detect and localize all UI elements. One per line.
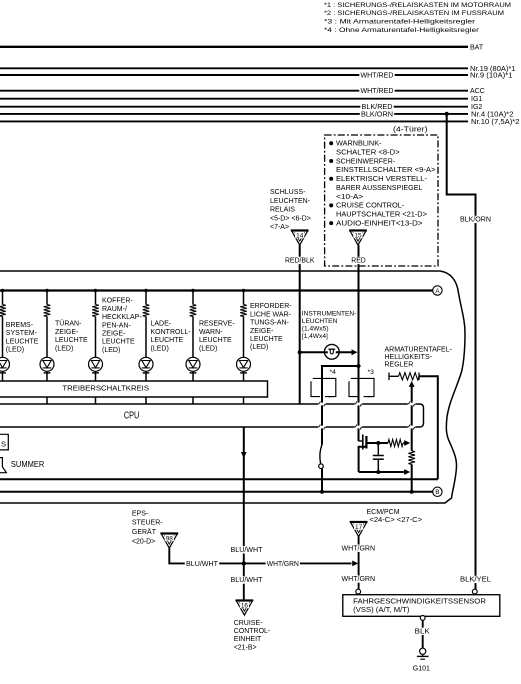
dimmer label ARMATURENTAFEL-HELLIGKEITS-REGLER [385, 346, 453, 368]
svg-text:BLK/ORN: BLK/ORN [361, 111, 393, 118]
svg-text:WHT/GRN: WHT/GRN [342, 545, 376, 552]
svg-text:TUNGS-AN-: TUNGS-AN- [250, 320, 290, 327]
wire branch to *4 [322, 366, 359, 445]
internal bus (dimmer return) [0, 478, 438, 480]
label EPS-STEUERGERAET [132, 510, 163, 545]
svg-text:(LED): (LED) [199, 345, 217, 352]
ticks driver circuit to CPU [47, 397, 244, 404]
wire BLK/ORN vertical to BLK/YEL [447, 114, 492, 591]
buzzer SUMMER [0, 458, 45, 473]
lamp INSTRUMENTENLEUCHTEN [300, 344, 358, 359]
wire RED/BLK from connector 14 [284, 245, 316, 271]
driver circuit box TREIBERSCHALTKREIS [0, 381, 268, 397]
wire BLK/ORN fuse Nr.4 (10A) [0, 111, 514, 119]
svg-text:LEUCHTE: LEUCHTE [6, 338, 39, 345]
LED branch BREMS-SYSTEM-LEUCHTE [0, 289, 39, 381]
wire BLK to ground [414, 620, 431, 648]
svg-text:HECKKLAP-: HECKKLAP- [102, 314, 142, 321]
svg-text:G101: G101 [413, 666, 430, 673]
breakmarks CPU box crossings [318, 401, 416, 429]
junction BLU/WHT [242, 561, 246, 565]
svg-text:IG2: IG2 [471, 104, 482, 111]
svg-text:16: 16 [241, 603, 249, 610]
LED branch RESERVEWARN-LEUCHTE [186, 289, 235, 381]
svg-text:ERFORDER-: ERFORDER- [250, 303, 292, 310]
wire IG1 [0, 96, 482, 103]
svg-text:RAUM-/: RAUM-/ [102, 306, 127, 313]
node A [433, 286, 442, 295]
svg-text:(LED): (LED) [6, 347, 24, 354]
resistor R1 (series) [366, 439, 410, 446]
junction split to *4 branch [356, 364, 360, 368]
LED branch TUERANZEIGE-LEUCHTE [40, 289, 88, 381]
svg-text:<7-A>: <7-A> [270, 224, 289, 231]
svg-text:EINHEIT: EINHEIT [234, 636, 262, 643]
svg-text:Nr.9 (10A)*1: Nr.9 (10A)*1 [470, 73, 513, 80]
svg-text:STEUER-: STEUER- [132, 520, 163, 527]
wire BLU/WHT vertical cluster to cruise [229, 503, 263, 601]
svg-text:HAUPTSCHALTER <21-D>: HAUPTSCHALTER <21-D> [336, 212, 427, 219]
svg-text:PEN-AN-: PEN-AN- [102, 322, 131, 329]
LED branch WARTUNGSANZEIGE-LEUCHTE [237, 289, 293, 381]
svg-text:CPU: CPU [124, 410, 140, 421]
svg-text:KOFFER-: KOFFER- [102, 298, 133, 305]
CPU box [0, 404, 424, 427]
svg-text:LEUCHTE: LEUCHTE [199, 337, 232, 344]
svg-text:REGLER: REGLER [385, 362, 414, 369]
svg-text:LEUCHTEN-: LEUCHTEN- [270, 198, 311, 205]
svg-text:<21-B>: <21-B> [234, 644, 257, 651]
junction switch to B bus [320, 490, 324, 494]
svg-text:14: 14 [296, 233, 304, 240]
svg-text:<24-C> <27-C>: <24-C> <27-C> [369, 517, 422, 524]
instrument cluster box outline [0, 271, 465, 503]
svg-text:IG1: IG1 [471, 96, 482, 103]
svg-text:LADE-: LADE- [151, 321, 172, 328]
switch option box (dash-dot) [325, 135, 438, 266]
svg-text:BLK/YEL: BLK/YEL [460, 577, 491, 584]
svg-text:BLK/RED: BLK/RED [362, 104, 393, 111]
svg-text:BLU/WHT: BLU/WHT [186, 561, 219, 568]
svg-text:BLU/WHT: BLU/WHT [231, 547, 264, 554]
svg-text:BLK/ORN: BLK/ORN [460, 217, 491, 224]
label CRUISE-CONTROL-EINHEIT [234, 620, 271, 652]
LED branch KOFFERRAUM-ANZEIGE-LEUCHTE [89, 289, 143, 381]
svg-text:17: 17 [355, 524, 363, 531]
svg-text:WARNBLINK-: WARNBLINK- [336, 141, 382, 148]
svg-text:Nr.4 (10A)*2: Nr.4 (10A)*2 [471, 111, 514, 118]
svg-text:WHT/GRN: WHT/GRN [267, 561, 299, 568]
wire BLK/RED IG2 [0, 103, 482, 111]
svg-text:LEUCHTE: LEUCHTE [250, 336, 283, 343]
wire RED feed (x=358.5) down to dimmer circuit [358, 271, 360, 441]
svg-text:BREMS-: BREMS- [6, 322, 34, 329]
svg-text:CRUISE CONTROL-: CRUISE CONTROL- [336, 203, 405, 210]
svg-text:<10-A>: <10-A> [336, 194, 363, 201]
svg-text:(1,4Wx5): (1,4Wx5) [302, 326, 329, 333]
label ECM/PCM [367, 509, 423, 524]
svg-text:(LED): (LED) [102, 347, 120, 354]
resistor R2 (pull-down) [408, 443, 415, 492]
svg-text:*4 : Ohne Armaturentafel-Helli: *4 : Ohne Armaturentafel-Helligkeitsregl… [324, 27, 480, 34]
svg-text:SCHEINWERFER-: SCHEINWERFER- [336, 158, 396, 165]
svg-text:ARMATURENTAFEL-: ARMATURENTAFEL- [385, 346, 453, 353]
svg-text:HELLIGKEITS-: HELLIGKEITS- [385, 354, 433, 361]
svg-text:*4: *4 [330, 369, 337, 376]
svg-text:(4-Türer): (4-Türer) [393, 127, 428, 134]
wire fuse Nr.19 (80A) [0, 66, 516, 73]
svg-text:WARN-: WARN- [199, 329, 223, 336]
junction Nr.4 / BLK-ORN tap [445, 112, 449, 116]
svg-text:SCHLUSS-: SCHLUSS- [270, 189, 306, 196]
connector triangle 98 [161, 534, 179, 549]
connector triangle 15 [349, 231, 367, 246]
svg-text:RELAIS: RELAIS [270, 207, 295, 214]
svg-text:TREIBERSCHALTKREIS: TREIBERSCHALTKREIS [62, 383, 149, 392]
svg-text:WHT/GRN: WHT/GRN [342, 576, 376, 583]
connector triangle 14 [291, 231, 309, 246]
svg-text:BARER AUSSENSPIEGEL: BARER AUSSENSPIEGEL [336, 185, 423, 192]
svg-text:ZEIGE-: ZEIGE- [250, 328, 274, 335]
terminal VSS left [356, 589, 361, 594]
vehicle speed sensor box [343, 595, 500, 617]
svg-text:GERÄT: GERÄT [132, 528, 157, 536]
svg-text:ECM/PCM: ECM/PCM [367, 509, 400, 516]
svg-text:BLU/WHT: BLU/WHT [231, 577, 264, 584]
svg-text:*1 : SICHERUNGS-/RELAISKASTEN: *1 : SICHERUNGS-/RELAISKASTEN IM MOTORRA… [324, 2, 511, 9]
relay label SCHLUSS-LEUCHTEN-RELAIS [270, 189, 311, 231]
wire CPU output to EPS/cruise (x=243.8) [241, 427, 247, 503]
terminal VSS right [472, 589, 477, 594]
connector triangle 17 [350, 522, 368, 537]
svg-text:98: 98 [166, 536, 174, 543]
junction R2 to B bus [410, 490, 414, 494]
svg-text:B: B [435, 489, 439, 496]
wire WHT/GRN to ECM [244, 560, 358, 568]
option box *3 [349, 369, 374, 397]
svg-text:RED: RED [351, 258, 366, 265]
potentiometer wiper arrow [409, 381, 415, 443]
svg-text:RED/BLK: RED/BLK [285, 258, 315, 265]
svg-text:ZEIGE-: ZEIGE- [102, 331, 126, 338]
ground G101 [413, 648, 430, 672]
svg-text:EPS-: EPS- [132, 510, 149, 517]
wire BLU/WHT from EPS [169, 548, 244, 568]
svg-text:RESERVE-: RESERVE- [199, 321, 235, 328]
wire WHT/GRN ECM to VSS [340, 537, 376, 591]
svg-text:*3: *3 [368, 369, 375, 376]
wire WHT/RED ACC [0, 87, 485, 95]
option box *4 [311, 369, 336, 397]
svg-text:SUMMER: SUMMER [11, 460, 45, 469]
svg-text:LEUCHTE: LEUCHTE [151, 337, 184, 344]
terminal VSS bottom [420, 616, 425, 621]
junction R1/wiper [376, 441, 380, 445]
svg-text:[1,4Wx4]: [1,4Wx4] [302, 333, 328, 340]
svg-text:LEUCHTEN: LEUCHTEN [302, 318, 338, 325]
connector triangle 16 [236, 601, 254, 616]
svg-text:LEUCHTE: LEUCHTE [102, 339, 135, 346]
svg-text:<20-D>: <20-D> [132, 538, 155, 545]
footnote legend *1-*4 [324, 2, 511, 34]
svg-text:AUDIO-EINHEIT<13-D>: AUDIO-EINHEIT<13-D> [336, 220, 423, 227]
buzzer box S [0, 434, 8, 450]
svg-text:WHT/RED: WHT/RED [361, 88, 394, 95]
svg-text:ZEIGE-: ZEIGE- [55, 329, 79, 336]
junction lamp line on x=300 wire [298, 350, 302, 354]
svg-text:Nr.10 (7,5A)*2: Nr.10 (7,5A)*2 [471, 119, 520, 126]
svg-text:SCHALTER <8-D>: SCHALTER <8-D> [336, 149, 400, 156]
svg-text:SYSTEM-: SYSTEM- [6, 330, 38, 337]
svg-text:(LED): (LED) [250, 344, 268, 351]
svg-text:*3 : Mit Armaturentafel-Hellig: *3 : Mit Armaturentafel-Helligkeitsregle… [324, 19, 476, 26]
wire WHT/RED fuse Nr.9 (10A) [0, 72, 513, 80]
svg-text:ACC: ACC [470, 88, 485, 95]
node B [433, 487, 442, 496]
svg-text:15: 15 [354, 233, 362, 240]
svg-text:BAT: BAT [470, 44, 484, 51]
svg-text:CONTROL-: CONTROL- [234, 628, 271, 635]
svg-text:(LED): (LED) [55, 345, 73, 352]
svg-text:KONTROLL-: KONTROLL- [151, 329, 192, 336]
potentiometer dimmer [389, 373, 438, 480]
internal bus to node B [0, 491, 433, 493]
svg-text:<5-D> <6-D>: <5-D> <6-D> [270, 215, 311, 222]
svg-text:WHT/RED: WHT/RED [361, 72, 394, 79]
svg-text:S: S [1, 440, 6, 449]
wire BAT [0, 44, 484, 51]
svg-text:CRUISE-: CRUISE- [234, 620, 263, 627]
wire fuse Nr.10 (7,5A) [0, 119, 520, 126]
svg-text:(LED): (LED) [151, 345, 169, 352]
svg-text:FAHRGESCHWINDIGKEITSSENSOR: FAHRGESCHWINDIGKEITSSENSOR [353, 598, 486, 605]
svg-text:TÜRAN-: TÜRAN- [55, 320, 82, 328]
wire transistor source to R2 bottom [359, 469, 411, 475]
svg-text:ELEKTRISCH VERSTELL-: ELEKTRISCH VERSTELL- [336, 176, 428, 183]
svg-text:LEUCHTE: LEUCHTE [55, 337, 88, 344]
capacitor C1 [373, 443, 384, 472]
LED branch LADEKONTROLL-LEUCHTE [139, 289, 191, 381]
junction capacitor bottom [376, 470, 380, 474]
switch inside cluster (x=322) [319, 445, 324, 492]
transistor Q1 dimmer driver [359, 435, 367, 473]
svg-text:*2 : SICHERUNGS-/RELAISKASTEN: *2 : SICHERUNGS-/RELAISKASTEN IM FUSSRAU… [324, 10, 504, 17]
LED supply bus [0, 289, 433, 291]
bullet list of 4-door switches [329, 141, 435, 228]
wire RED/BLK feed into cluster (x=300) [299, 271, 301, 404]
svg-text:EINSTELLSCHALTER <9-A>: EINSTELLSCHALTER <9-A> [336, 167, 436, 174]
svg-text:LICHE WAR-: LICHE WAR- [250, 311, 292, 318]
svg-text:INSTRUMENTEN-: INSTRUMENTEN- [302, 311, 357, 318]
instrument illumination label [302, 311, 357, 341]
svg-text:(VSS) (A/T, M/T): (VSS) (A/T, M/T) [353, 607, 409, 614]
svg-text:BLK: BLK [415, 628, 430, 635]
wire RED from connector 15 [350, 245, 367, 271]
